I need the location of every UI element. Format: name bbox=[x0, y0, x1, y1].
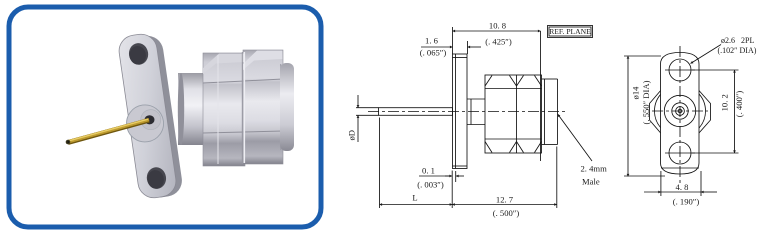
svg-text:(. 400″): (. 400″) bbox=[734, 91, 744, 118]
svg-text:10. 2: 10. 2 bbox=[720, 94, 730, 111]
svg-text:10. 8: 10. 8 bbox=[489, 21, 506, 31]
svg-text:L: L bbox=[412, 193, 417, 203]
svg-text:(. 003″): (. 003″) bbox=[417, 180, 444, 190]
svg-text:(.102″ DIA): (.102″ DIA) bbox=[718, 46, 757, 55]
svg-text:0. 1: 0. 1 bbox=[422, 166, 435, 176]
svg-text:2. 4mm: 2. 4mm bbox=[581, 164, 608, 174]
svg-text:(. 550″ DIA): (. 550″ DIA) bbox=[641, 80, 651, 124]
svg-text:(. 425″): (. 425″) bbox=[485, 37, 512, 47]
svg-text:øD: øD bbox=[347, 130, 357, 141]
svg-text:REF. PLANE: REF. PLANE bbox=[549, 27, 591, 36]
svg-text:1. 6: 1. 6 bbox=[425, 36, 439, 46]
svg-text:ø2.6 2PL: ø2.6 2PL bbox=[721, 36, 754, 45]
svg-text:12. 7: 12. 7 bbox=[496, 195, 514, 205]
svg-text:Male: Male bbox=[582, 177, 600, 187]
svg-text:ø14: ø14 bbox=[631, 86, 641, 100]
svg-text:(. 065″): (. 065″) bbox=[420, 48, 447, 58]
svg-text:4. 8: 4. 8 bbox=[676, 182, 689, 192]
svg-text:(. 500″): (. 500″) bbox=[493, 208, 520, 218]
svg-text:(. 190″): (. 190″) bbox=[673, 197, 700, 207]
